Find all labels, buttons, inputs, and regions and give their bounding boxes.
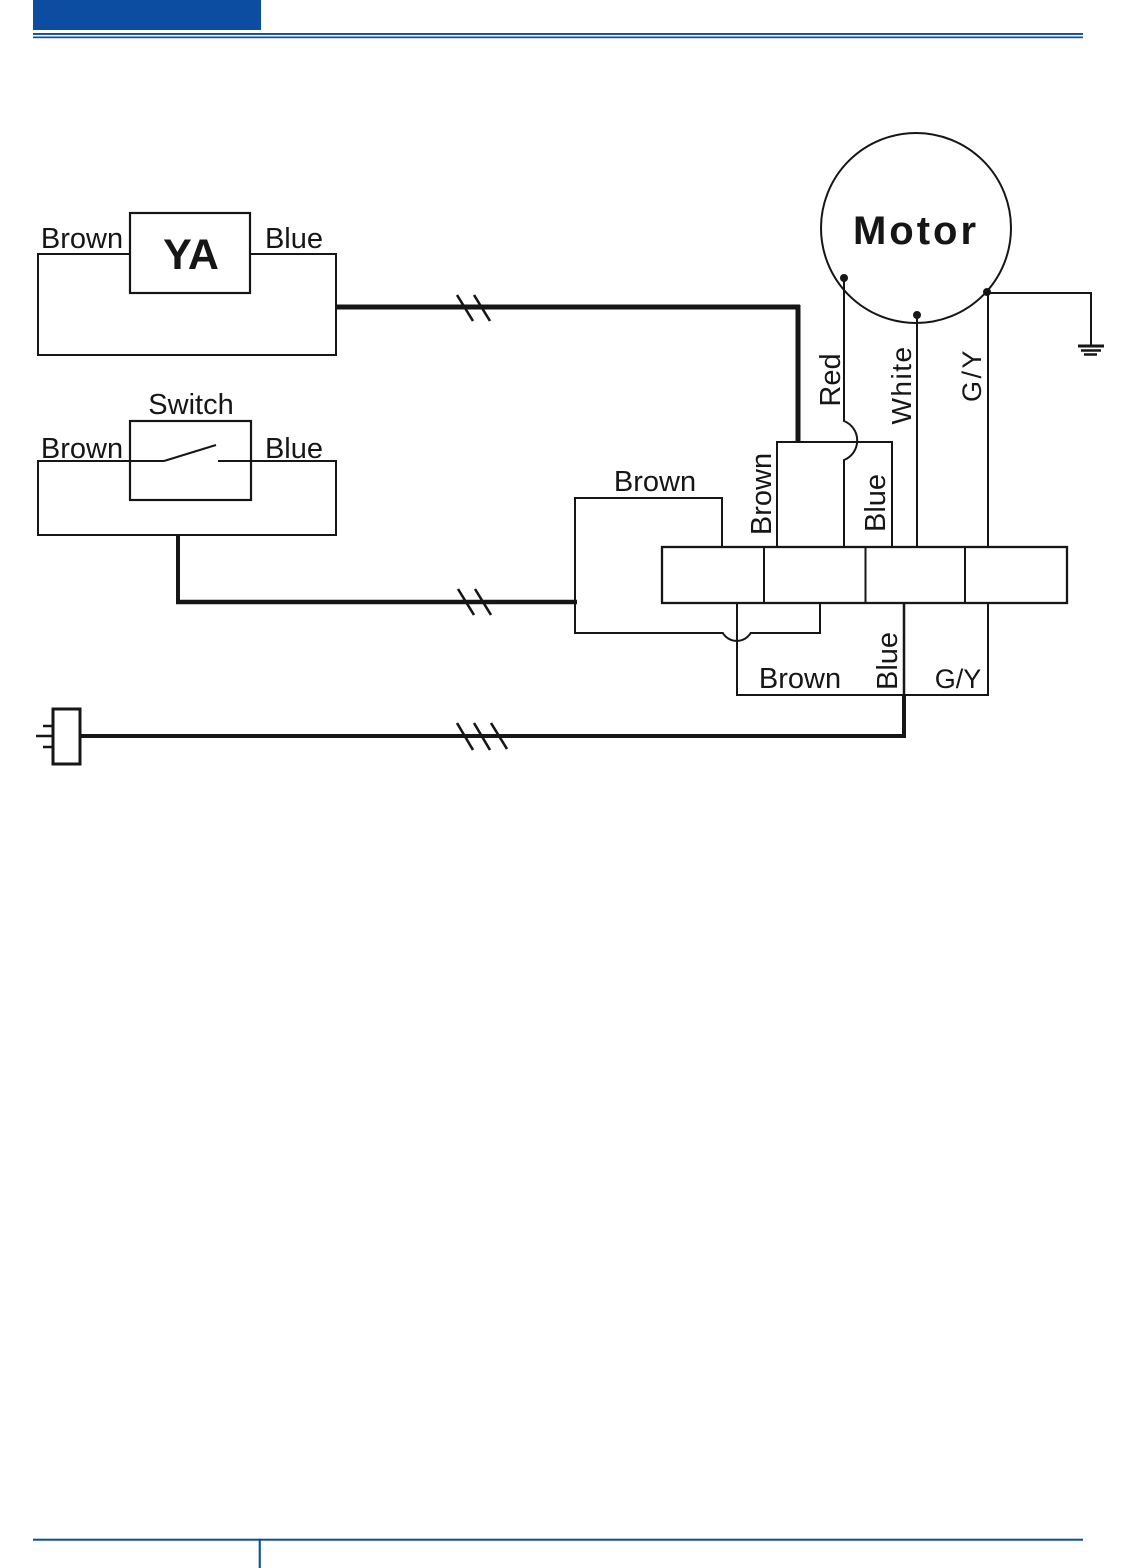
switch cable sheath: brown wire up to terminal xyxy=(575,498,722,602)
svg-text:Blue: Blue xyxy=(872,632,904,690)
plug pin top xyxy=(43,725,53,728)
wire switch drop (thick) xyxy=(176,535,180,602)
svg-text:Brown: Brown xyxy=(614,466,696,498)
svg-text:G/Y: G/Y xyxy=(957,348,987,402)
svg-text:Brown: Brown xyxy=(759,663,841,695)
supply cable sheath box xyxy=(737,603,988,695)
motor M1 xyxy=(821,133,1011,323)
wire switch loop xyxy=(38,461,336,535)
terminal divider 3 xyxy=(964,547,966,603)
svg-text:G/Y: G/Y xyxy=(935,664,982,694)
wire white lead xyxy=(916,315,918,547)
svg-text:Brown: Brown xyxy=(41,223,123,255)
wire YA loop xyxy=(38,254,336,355)
svg-text:Blue: Blue xyxy=(265,223,323,255)
switch cable sheath: blue wire under terminal with hop xyxy=(575,600,820,641)
svg-text:Motor: Motor xyxy=(853,209,979,253)
wire red lead with hop xyxy=(844,278,857,547)
wire supply cable drop (thick) xyxy=(902,695,906,738)
break marks on supply cable xyxy=(457,723,507,750)
footer rule xyxy=(33,1539,1083,1541)
wire YA cable horizontal (thick) xyxy=(336,305,800,310)
header blue banner xyxy=(33,0,261,30)
motor cable sheath box xyxy=(777,442,892,547)
relay coil box YA xyxy=(130,213,250,293)
plug pin bottom xyxy=(43,746,53,749)
terminal block xyxy=(662,547,1067,603)
header rule thin xyxy=(33,37,1083,39)
plug pin middle xyxy=(36,735,53,738)
svg-text:Red: Red xyxy=(815,353,847,406)
header rule thick xyxy=(33,33,1083,35)
wire to ground xyxy=(987,293,1091,345)
motor terminal dot (G/Y lead) xyxy=(983,288,991,296)
motor terminal dot (white lead) xyxy=(913,311,921,319)
wire switch cable horizontal (thick) xyxy=(176,600,577,605)
break marks on YA cable xyxy=(457,295,490,321)
wire YA cable vertical (thick) xyxy=(796,305,801,442)
svg-text:Brown: Brown xyxy=(746,453,778,535)
footer tick xyxy=(259,1539,261,1568)
switch contacts xyxy=(130,445,251,461)
terminal divider 1 xyxy=(763,547,765,603)
break marks on switch cable xyxy=(458,589,491,615)
switch box xyxy=(130,421,251,500)
svg-text:YA: YA xyxy=(163,231,219,279)
svg-text:Switch: Switch xyxy=(148,389,233,421)
wire G/Y lead xyxy=(987,292,989,547)
ground xyxy=(1078,346,1104,355)
svg-text:Blue: Blue xyxy=(860,474,892,532)
wire supply cable horizontal (thick) xyxy=(80,734,906,738)
wire blue supply inside sheath xyxy=(903,603,906,695)
motor terminal dot (red lead) xyxy=(840,274,848,282)
mains plug xyxy=(53,709,80,764)
svg-text:White: White xyxy=(886,345,917,424)
terminal divider 2 xyxy=(865,547,867,603)
